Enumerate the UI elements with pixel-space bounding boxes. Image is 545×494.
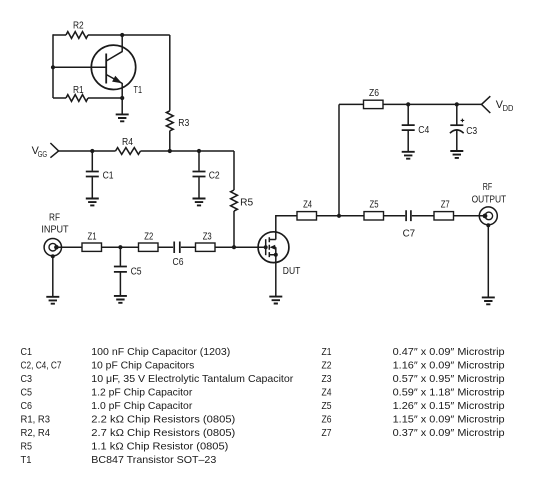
svg-text:DUT: DUT bbox=[283, 266, 301, 277]
ground T1 emitter bbox=[116, 114, 129, 121]
svg-text:10 μF, 35 V Electrolytic Tanta: 10 μF, 35 V Electrolytic Tantalum Capaci… bbox=[91, 374, 294, 385]
svg-text:Z4: Z4 bbox=[322, 388, 332, 399]
microstrip Z6 bbox=[364, 88, 384, 109]
svg-text:10 pF Chip Capacitors: 10 pF Chip Capacitors bbox=[91, 361, 194, 372]
svg-text:C6: C6 bbox=[173, 257, 184, 268]
parts list right column designators bbox=[322, 347, 332, 439]
wire DUT drain bbox=[276, 216, 297, 232]
wire collector vertical bbox=[121, 35, 123, 52]
svg-text:T1: T1 bbox=[21, 455, 32, 466]
node collector junction bbox=[120, 33, 124, 37]
resistor R4 bbox=[116, 137, 141, 154]
svg-text:0.57″ x 0.95″ Microstrip: 0.57″ x 0.95″ Microstrip bbox=[393, 374, 505, 385]
svg-text:RF: RF bbox=[483, 182, 492, 193]
svg-text:1.16″ x 0.09″ Microstrip: 1.16″ x 0.09″ Microstrip bbox=[393, 361, 505, 372]
capacitor C2 bbox=[193, 151, 221, 198]
svg-text:Z6: Z6 bbox=[369, 88, 379, 99]
svg-text:C4: C4 bbox=[418, 125, 429, 136]
ground C2 bbox=[193, 199, 206, 206]
svg-text:R5: R5 bbox=[21, 442, 33, 453]
svg-text:T1: T1 bbox=[134, 85, 143, 96]
svg-text:1.26″ x 0.15″ Microstrip: 1.26″ x 0.15″ Microstrip bbox=[393, 401, 505, 412]
RF input connector bbox=[41, 212, 68, 258]
svg-text:Z5: Z5 bbox=[370, 200, 379, 211]
capacitor C3 bbox=[450, 104, 478, 150]
wire top rail (R2/collector rail) bbox=[53, 34, 170, 36]
svg-text:1.0 pF Chip Capacitor: 1.0 pF Chip Capacitor bbox=[91, 401, 193, 412]
svg-text:0.59″ x 1.18″ Microstrip: 0.59″ x 1.18″ Microstrip bbox=[393, 388, 505, 399]
microstrip Z4 bbox=[297, 200, 317, 221]
svg-text:R4: R4 bbox=[122, 137, 133, 148]
resistor R1 bbox=[66, 85, 88, 101]
ground C3 bbox=[450, 151, 463, 158]
svg-text:Z6: Z6 bbox=[322, 415, 332, 426]
parts list right column descriptions bbox=[393, 347, 505, 439]
svg-text:Z2: Z2 bbox=[144, 231, 153, 242]
transistor T1 bbox=[91, 45, 142, 96]
svg-text:2.2 kΩ Chip Resistors (0805): 2.2 kΩ Chip Resistors (0805) bbox=[91, 415, 235, 426]
wire R1 rail bbox=[53, 97, 122, 99]
microstrip Z1 bbox=[82, 231, 102, 251]
microstrip Z7 bbox=[434, 200, 454, 221]
svg-text:C5: C5 bbox=[131, 267, 142, 278]
node C5 junction bbox=[118, 245, 122, 249]
ground C1 bbox=[86, 199, 99, 206]
svg-text:R2, R4: R2, R4 bbox=[21, 428, 51, 439]
svg-text:Z5: Z5 bbox=[322, 401, 332, 412]
svg-text:C5: C5 bbox=[21, 388, 33, 399]
ground C5 bbox=[114, 296, 127, 303]
node emitter junction bbox=[120, 96, 124, 100]
ground RF output bbox=[482, 297, 495, 304]
capacitor C5 bbox=[114, 247, 142, 295]
svg-text:Z2: Z2 bbox=[322, 361, 332, 372]
node Z4/Z5 junction bbox=[337, 214, 341, 218]
svg-text:2.7 kΩ Chip Resistors (0805): 2.7 kΩ Chip Resistors (0805) bbox=[91, 428, 235, 439]
svg-text:C1: C1 bbox=[103, 171, 114, 182]
wire base lead T1 bbox=[53, 66, 106, 68]
node base-left junction bbox=[51, 65, 55, 69]
svg-text:1.15″ x 0.09″ Microstrip: 1.15″ x 0.09″ Microstrip bbox=[393, 415, 505, 426]
svg-text:0.47″ x 0.09″ Microstrip: 0.47″ x 0.09″ Microstrip bbox=[393, 347, 505, 358]
svg-text:R1: R1 bbox=[73, 85, 84, 96]
svg-text:Z1: Z1 bbox=[322, 347, 332, 358]
node R3 junction bbox=[168, 149, 172, 153]
svg-text:C7: C7 bbox=[403, 229, 416, 240]
svg-text:R5: R5 bbox=[240, 198, 253, 209]
wire output rail bbox=[317, 215, 486, 217]
ground DUT bbox=[269, 297, 282, 304]
transistor DUT bbox=[258, 232, 300, 277]
microstrip Z5 bbox=[364, 200, 384, 221]
svg-text:RF: RF bbox=[49, 212, 60, 223]
wire emitter vertical bbox=[121, 83, 123, 114]
svg-text:R1, R3: R1, R3 bbox=[21, 415, 51, 426]
resistor R3 bbox=[166, 35, 189, 151]
svg-text:100 nF Chip Capacitor (1203): 100 nF Chip Capacitor (1203) bbox=[91, 347, 230, 358]
capacitor C1 bbox=[86, 151, 114, 198]
svg-text:DD: DD bbox=[503, 104, 514, 113]
svg-text:Z7: Z7 bbox=[441, 200, 450, 211]
svg-text:GG: GG bbox=[38, 150, 48, 159]
svg-text:Z3: Z3 bbox=[322, 374, 332, 385]
svg-text:Z7: Z7 bbox=[322, 428, 332, 439]
microstrip Z3 bbox=[196, 231, 216, 251]
svg-text:R2: R2 bbox=[73, 21, 84, 32]
svg-text:C3: C3 bbox=[21, 374, 33, 385]
node C4 junction bbox=[406, 102, 410, 106]
svg-text:C1: C1 bbox=[21, 347, 33, 358]
svg-text:0.37″ x 0.09″ Microstrip: 0.37″ x 0.09″ Microstrip bbox=[393, 428, 505, 439]
wire RF rail bbox=[56, 246, 265, 248]
node C2 junction bbox=[197, 149, 201, 153]
svg-text:INPUT: INPUT bbox=[41, 225, 68, 236]
svg-text:Z3: Z3 bbox=[203, 231, 212, 242]
svg-text:C2: C2 bbox=[209, 171, 220, 182]
svg-text:BC847 Transistor SOT–23: BC847 Transistor SOT–23 bbox=[91, 455, 216, 466]
resistor R2 bbox=[66, 21, 88, 39]
wire riser to supply rail bbox=[338, 104, 340, 215]
ground C4 bbox=[402, 152, 415, 159]
wire RF input connector to ground bbox=[52, 256, 54, 296]
RF output connector bbox=[472, 182, 507, 227]
svg-text:C6: C6 bbox=[21, 401, 33, 412]
resistor R5 bbox=[231, 151, 254, 247]
input VDD bbox=[482, 96, 514, 113]
wire DUT source to ground bbox=[275, 255, 277, 297]
wire VGG rail bbox=[59, 150, 234, 152]
svg-text:1.1 kΩ Chip Resistor (0805): 1.1 kΩ Chip Resistor (0805) bbox=[91, 442, 228, 453]
parts list left column designators bbox=[21, 347, 62, 466]
wire supply rail bbox=[339, 103, 482, 105]
capacitor C7 bbox=[403, 210, 416, 239]
svg-text:Z4: Z4 bbox=[303, 200, 312, 211]
node C3 junction bbox=[455, 102, 459, 106]
capacitor C6 bbox=[173, 242, 184, 269]
wire left vertical rail bbox=[52, 34, 54, 98]
wire RF output connector to ground bbox=[487, 225, 489, 297]
parts list left column descriptions bbox=[91, 347, 294, 466]
node C1 junction bbox=[90, 149, 94, 153]
svg-text:1.2 pF Chip Capacitor: 1.2 pF Chip Capacitor bbox=[91, 388, 193, 399]
svg-text:Z1: Z1 bbox=[88, 231, 97, 242]
capacitor C4 bbox=[402, 104, 430, 151]
ground RF input bbox=[46, 297, 59, 304]
svg-text:C3: C3 bbox=[466, 126, 477, 137]
svg-text:R3: R3 bbox=[178, 118, 189, 129]
svg-text:C2, C4, C7: C2, C4, C7 bbox=[21, 361, 62, 372]
microstrip Z2 bbox=[139, 231, 159, 251]
svg-text:OUTPUT: OUTPUT bbox=[472, 194, 507, 205]
node R5/gate junction bbox=[232, 245, 236, 249]
input VGG bbox=[32, 143, 59, 159]
